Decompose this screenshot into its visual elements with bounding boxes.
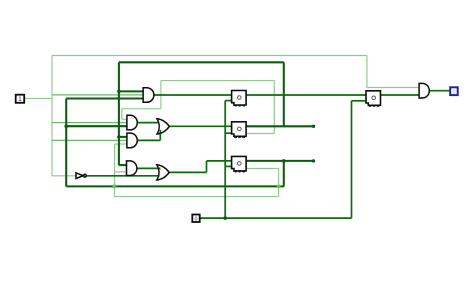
wire clock vertical x351.5 [351,101,353,218]
node wire end dot [312,159,315,162]
wire pin1 to vertical [24,97,52,99]
gate O1 OR [157,119,169,134]
wire riser to FF3 [206,161,208,173]
wire vertical x161 [160,81,162,109]
wire horizontal y80.6 [161,80,274,82]
wire to U6 top input [367,87,420,89]
node wire end dot [312,125,315,128]
node junction dot clock [223,216,227,220]
wire FF3 Qbar out [246,167,278,169]
node junction dot [64,124,68,128]
wire U6 output to pin [429,90,450,92]
gate O2 OR [157,165,169,180]
wire bottom horizontal y196.6 [115,196,279,198]
wire to U4 top input [119,164,127,166]
wire to U3 middle input [52,139,128,141]
wire to U2 middle input [52,122,128,124]
wire vertical x66.2 [65,99,67,187]
wire to U1 middle input [52,94,144,96]
pin input clock [192,215,199,223]
wire to U3 top input [119,136,128,138]
gate U2 AND [127,115,137,130]
wire thick horizontal y186.4 [66,185,284,187]
wire FF2 Q out [246,125,313,127]
wire U4 output to O2 [137,167,161,169]
wire to FF3 D input [207,160,232,162]
wire riser into O1 [159,130,161,141]
node crossing dot x278.6 [277,185,281,189]
wire vertical x274 [273,81,275,134]
svg-text:1: 1 [18,96,22,103]
flip-flop FF1 [232,91,247,107]
pin output [450,87,458,95]
wire O2 output [168,171,206,173]
flip-flop FF4 [366,91,381,107]
wire FF1 clock stub [225,100,231,102]
gate U1 AND [143,88,154,103]
wire to U2 bottom input [66,125,127,127]
wire vertical x114.5 [114,144,116,197]
wire U2 output to O1 [137,122,159,124]
node crossing dot x114.5 [113,185,117,189]
wire FF4 Q to U6 [381,94,420,96]
wire U3 output [137,139,161,141]
wire top horizontal y55.5 [52,55,367,57]
flip-flop FF3 [232,156,247,172]
wire to U1 bottom input [66,97,144,99]
flip-flop FF2 [232,122,247,138]
wire to U4 bottom input [115,171,128,173]
wire FF3 Q out [246,160,313,162]
svg-text:0: 0 [195,216,198,222]
pin input 1 [16,95,25,104]
wire to NOT input [52,175,76,177]
wire FF1 Q to FF4 D [246,94,366,96]
wire clock vertical x225.2 [224,101,226,219]
wire to U1 top input [119,90,144,92]
gate U6 AND output [419,83,429,98]
wire O1 output to FF2 [169,125,232,127]
wire vertical x283.8 lower [283,161,285,187]
wire FF2 Qbar out [246,133,274,135]
wire FF3 clock stub [225,165,231,167]
wire vertical x367 [366,56,368,88]
gate U3 AND [127,133,137,148]
wire FF2 clock stub [225,132,231,134]
gate NOT inverter [76,173,83,179]
svg-text:0: 0 [452,89,455,95]
wire vertical x283.8 upper [283,62,285,126]
wire vertical x122 [121,109,123,120]
wire NOT output to O2 [86,175,159,177]
wire FF4 clock stub [352,100,367,102]
node junction dot [117,90,121,94]
gate U4 AND [127,161,137,176]
wire vertical x118.9 [118,62,120,165]
wire to U2 top input [122,118,128,120]
wire to U3 bottom input [115,143,128,145]
wire clock pin2 horizontal [200,217,352,219]
node junction dot [117,135,121,139]
wire vertical x52 [51,56,53,176]
wire vertical x278.6 [278,168,280,196]
node junction dot [282,159,286,163]
wire U1 output to FF1 [154,94,232,96]
wire horizontal y108.7 [122,108,161,110]
wire top dark horizontal y62.3 [119,61,284,63]
